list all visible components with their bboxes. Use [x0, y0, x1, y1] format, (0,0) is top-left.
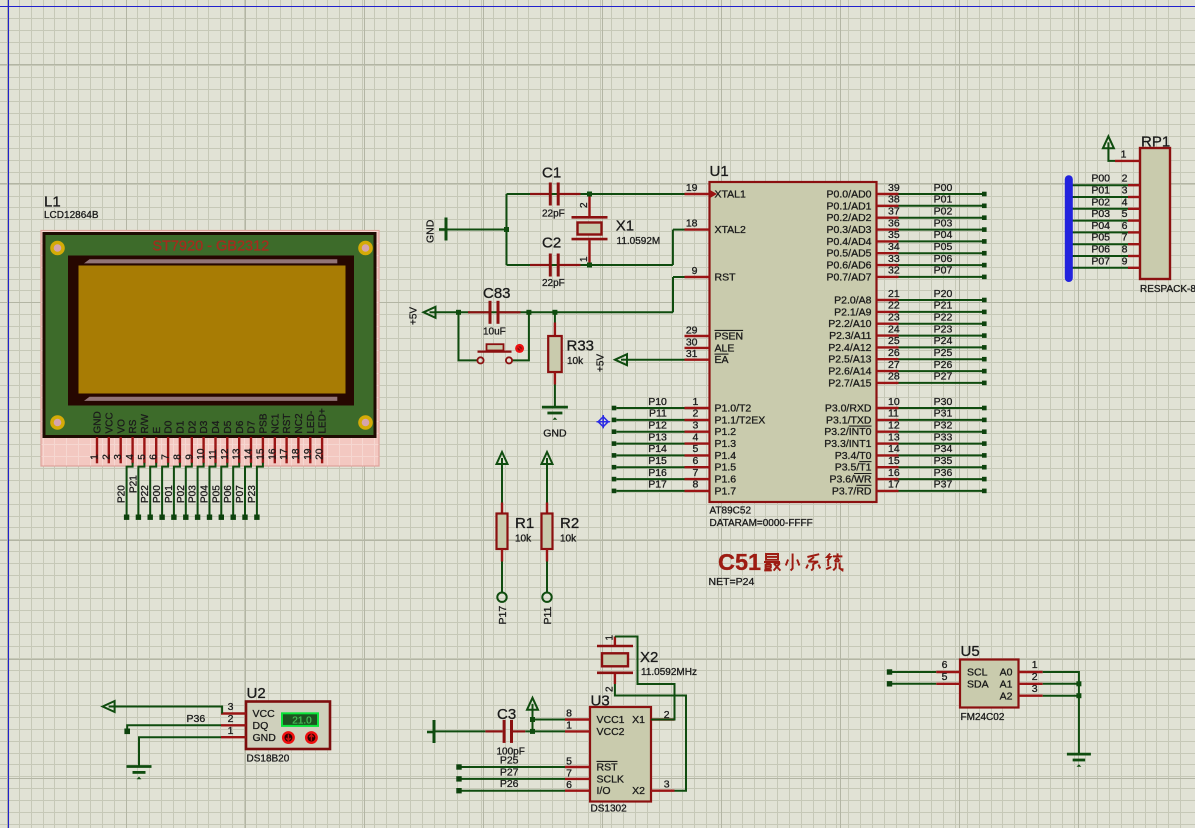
svg-text:10k: 10k [515, 534, 532, 545]
svg-text:VO: VO [116, 419, 127, 434]
U1 pin 6 P1.5 / wire net P15 [612, 465, 617, 470]
svg-text:XTAL1: XTAL1 [715, 189, 746, 201]
svg-text:P34: P34 [934, 443, 953, 455]
svg-text:P10: P10 [648, 396, 667, 408]
terminal P04 [207, 515, 212, 520]
wire LCD pin 5 to net P21 [138, 463, 144, 515]
svg-text:RESPACK-8: RESPACK-8 [1140, 284, 1195, 295]
junction X1 bottom [587, 263, 592, 268]
capacitor C83 10uF [468, 285, 521, 338]
svg-text:RST: RST [715, 272, 737, 284]
svg-text:P1.0/T2: P1.0/T2 [715, 403, 752, 415]
U1 pin 34 P0.5/AD5 / wire net P05 [877, 252, 899, 254]
svg-text:4: 4 [125, 454, 136, 460]
terminal P36 [124, 729, 130, 735]
wire C3 to VCC2 and +5V riser [525, 730, 565, 732]
title glyph (CJK) [826, 553, 842, 570]
svg-text:NET=P24: NET=P24 [709, 576, 755, 588]
svg-text:9: 9 [1122, 255, 1128, 267]
LCD screen [79, 266, 346, 394]
terminal P06 [231, 515, 236, 520]
power arrow U2 VCC [103, 701, 115, 712]
LCD green board [44, 234, 375, 437]
svg-text:GND: GND [253, 732, 277, 744]
svg-text:14: 14 [888, 443, 900, 455]
svg-text:R33: R33 [567, 338, 595, 355]
svg-text:5: 5 [692, 443, 698, 455]
U2 up button [306, 732, 316, 742]
U1 pin 2 P1.1/T2EX / wire net P11 [612, 418, 617, 423]
svg-text:13: 13 [888, 431, 900, 443]
wire button right branch [512, 312, 529, 360]
svg-text:GND: GND [425, 219, 437, 243]
svg-text:P0.4/AD4: P0.4/AD4 [827, 236, 872, 248]
microcontroller U1 AT89C52 [710, 163, 877, 529]
junction A1 [1076, 681, 1081, 686]
U5 pin 5 SDA / wire [887, 681, 892, 686]
svg-text:D1: D1 [176, 420, 187, 433]
U1 pin 25 P2.4/A12 / wire net P24 [877, 346, 899, 348]
svg-text:P00: P00 [152, 485, 163, 503]
U1 pin 8 P1.7 / wire net P17 [612, 489, 617, 494]
svg-text:EA: EA [715, 354, 729, 366]
svg-text:1: 1 [90, 454, 101, 460]
svg-text:P06: P06 [1091, 244, 1110, 256]
svg-text:D0: D0 [164, 420, 175, 433]
svg-text:1: 1 [579, 256, 590, 262]
svg-text:P1.6: P1.6 [715, 474, 737, 486]
svg-text:22: 22 [888, 300, 900, 312]
power arrow RP1 pin1 [1103, 136, 1114, 148]
LCD bezel [68, 256, 354, 406]
svg-text:D7: D7 [247, 420, 258, 433]
svg-text:NC1: NC1 [270, 413, 281, 433]
U1 pin 21 P2.0/A8 / wire net P20 [877, 299, 899, 301]
svg-text:DATARAM=0000-FFFF: DATARAM=0000-FFFF [710, 518, 813, 529]
svg-text:P20: P20 [117, 485, 128, 503]
svg-text:XTAL2: XTAL2 [715, 224, 746, 236]
wire LCD pin 14 to net P07 [245, 463, 251, 515]
svg-text:P2.4/A12: P2.4/A12 [828, 342, 871, 354]
EEPROM U5 FM24C02 [960, 643, 1019, 723]
wire RP1 pin 3 net P01 [1067, 196, 1128, 198]
svg-text:13: 13 [232, 448, 243, 460]
svg-text:3: 3 [113, 454, 124, 460]
svg-text:5: 5 [566, 756, 572, 768]
svg-text:LCD12864B: LCD12864B [44, 210, 99, 221]
svg-text:19: 19 [686, 182, 698, 194]
wire RP1 pin 2 net P00 [1067, 184, 1128, 186]
U3 pin 8 VCC1 [565, 718, 590, 720]
capacitor C1 [530, 165, 581, 220]
svg-text:A2: A2 [1000, 690, 1013, 702]
crystal X1 11.0592M [572, 194, 661, 265]
svg-text:20: 20 [315, 448, 326, 460]
svg-text:P1.2: P1.2 [715, 426, 737, 438]
svg-text:+5V: +5V [596, 354, 607, 372]
svg-text:C2: C2 [542, 235, 561, 252]
svg-text:P17: P17 [497, 606, 509, 625]
svg-text:P03: P03 [1091, 208, 1110, 220]
svg-text:27: 27 [888, 359, 900, 371]
U1 pin 7 P1.6 / wire net P16 [612, 477, 617, 482]
svg-text:A1: A1 [1000, 678, 1013, 690]
svg-text:P02: P02 [1091, 196, 1110, 208]
resistor R1 10k [497, 464, 535, 592]
svg-text:P0.6/AD6: P0.6/AD6 [827, 260, 872, 272]
svg-text:39: 39 [888, 182, 900, 194]
svg-text:P25: P25 [934, 347, 953, 359]
svg-text:30: 30 [686, 336, 698, 348]
svg-text:6: 6 [1122, 220, 1128, 232]
svg-text:35: 35 [888, 229, 900, 241]
svg-text:5: 5 [137, 454, 148, 460]
svg-text:D2: D2 [187, 420, 198, 433]
U1 pin 33 P0.6/AD6 / wire net P06 [877, 264, 899, 266]
svg-text:23: 23 [888, 312, 900, 324]
svg-text:P3.0/RXD: P3.0/RXD [825, 403, 872, 415]
svg-text:3: 3 [1032, 683, 1038, 695]
svg-text:D6: D6 [235, 420, 246, 433]
svg-text:5: 5 [942, 671, 948, 683]
svg-text:37: 37 [888, 206, 900, 218]
temperature sensor U2 DS18B20 [246, 685, 330, 765]
svg-text:9: 9 [184, 454, 195, 460]
ground rail (C3) [433, 720, 436, 743]
svg-text:1: 1 [228, 725, 234, 737]
svg-text:SCL: SCL [967, 667, 988, 679]
svg-text:P2.7/A15: P2.7/A15 [828, 377, 871, 389]
terminal P07 [242, 515, 247, 520]
svg-text:P04: P04 [200, 485, 211, 503]
svg-text:P04: P04 [1091, 220, 1110, 232]
U5 pin 6 SCL / wire [887, 669, 892, 674]
U1 pin 31 EA [685, 359, 710, 361]
junction C83 right [526, 310, 531, 315]
svg-text:10: 10 [196, 448, 207, 460]
svg-text:P00: P00 [934, 182, 953, 194]
LCD mounting hole [50, 241, 65, 256]
title glyph (CJK) [764, 554, 780, 571]
bus bar (blue) [1065, 179, 1073, 278]
svg-text:1: 1 [1032, 659, 1038, 671]
U3 pin 6 / wire net P26 [456, 788, 461, 793]
ground (earth) under R33 [542, 406, 568, 409]
svg-text:7: 7 [692, 467, 698, 479]
junction R33 top [552, 310, 557, 315]
terminal P21 [136, 515, 141, 520]
RTC U3 DS1302 [590, 693, 651, 815]
terminal P22 [148, 515, 153, 520]
svg-text:31: 31 [686, 348, 698, 360]
svg-text:R1: R1 [515, 515, 534, 532]
svg-text:18: 18 [291, 448, 302, 460]
wire LCD pin 6 to net P22 [150, 463, 156, 515]
U2 display 21.0 [282, 713, 318, 726]
U2 down button [283, 732, 293, 742]
U1 pin 18 XTAL2 [685, 228, 710, 230]
svg-text:P31: P31 [934, 408, 953, 420]
svg-text:29: 29 [686, 325, 698, 337]
svg-text:P30: P30 [934, 396, 953, 408]
svg-text:P01: P01 [1091, 185, 1110, 197]
U3 pin 3 X2 [651, 790, 675, 792]
svg-text:19: 19 [303, 448, 314, 460]
U1 pin 16 P3.6/WR / wire net P36 [877, 478, 899, 480]
wire LCD pin 8 to net P01 [174, 463, 180, 515]
wire LCD pin 13 to net P06 [233, 463, 239, 515]
svg-text:P15: P15 [648, 455, 667, 467]
svg-text:P07: P07 [1091, 255, 1110, 267]
svg-text:P1.7: P1.7 [715, 485, 737, 497]
svg-text:P00: P00 [1091, 173, 1110, 185]
LCD mounting hole [358, 241, 373, 256]
U1 pin 13 P3.3/INT1 / wire net P33 [877, 442, 899, 444]
svg-text:P20: P20 [934, 288, 953, 300]
wire RP1 pin 8 net P06 [1067, 255, 1128, 257]
ground (earth) U5 [1067, 753, 1091, 756]
origin marker (blue crosshair) [597, 415, 610, 428]
ground rail GND (crystal net) [445, 218, 448, 241]
svg-text:10uF: 10uF [483, 327, 506, 338]
U2 pin 1 GND [221, 736, 246, 738]
U1 pin 24 P2.3/A11 / wire net P23 [877, 334, 899, 336]
svg-text:P02: P02 [934, 206, 953, 218]
svg-text:P3.3/INT1: P3.3/INT1 [824, 438, 871, 450]
U5 pin 3 A2 / wire [1019, 695, 1043, 697]
U1 pin 1 P1.0/T2 / wire net P10 [612, 406, 617, 411]
svg-text:P3.6/WR: P3.6/WR [829, 474, 871, 486]
svg-text:DS18B20: DS18B20 [247, 754, 290, 765]
svg-text:ST7920 - GB2312: ST7920 - GB2312 [152, 239, 269, 255]
U3 pin 1 VCC2 [565, 730, 590, 732]
wire XTAL2 net bottom (C2 to riser up) [507, 264, 673, 266]
wire RP1 pin 5 net P03 [1067, 220, 1128, 222]
U1 pin 39 P0.0/AD0 / wire net P00 [877, 193, 899, 195]
svg-text:SCLK: SCLK [597, 773, 624, 785]
svg-text:P16: P16 [648, 467, 667, 479]
svg-text:P32: P32 [934, 420, 953, 432]
U5 pin 2 A1 / wire [1019, 683, 1043, 685]
svg-text:LED+: LED+ [318, 408, 329, 433]
svg-text:R/W: R/W [140, 414, 151, 434]
U1 pin 35 P0.4/AD4 / wire net P04 [877, 240, 899, 242]
svg-text:6: 6 [692, 455, 698, 467]
svg-text:L1: L1 [44, 194, 61, 211]
svg-text:D3: D3 [199, 420, 210, 433]
power +5V (EA pin) [615, 354, 627, 365]
svg-text:9: 9 [692, 265, 698, 277]
U1 pin 27 P2.6/A14 / wire net P26 [877, 370, 899, 372]
U5 pin 1 A0 / wire [1019, 671, 1043, 673]
svg-text:P26: P26 [500, 778, 519, 790]
svg-text:P21: P21 [128, 475, 139, 493]
terminal circle P17 [497, 593, 506, 602]
svg-text:LED-: LED- [306, 411, 317, 434]
U1 pin 12 P3.2/INT0 / wire net P32 [877, 431, 899, 433]
svg-text:P1.5: P1.5 [715, 462, 737, 474]
wire RP1 pin 9 net P07 [1067, 267, 1128, 269]
svg-text:22pF: 22pF [542, 209, 565, 220]
svg-text:P0.2/AD2: P0.2/AD2 [827, 212, 872, 224]
power arrow above R2 [542, 452, 553, 464]
svg-text:P05: P05 [211, 485, 222, 503]
svg-text:P23: P23 [247, 485, 258, 503]
svg-text:P3.7/RD: P3.7/RD [832, 485, 872, 497]
wire U2 DQ to terminal P36 [127, 725, 221, 728]
svg-text:C51: C51 [718, 549, 761, 575]
svg-text:16: 16 [888, 467, 900, 479]
svg-text:1: 1 [566, 719, 572, 731]
svg-text:14: 14 [244, 448, 255, 460]
ground (earth) U2 [127, 765, 152, 768]
svg-text:P22: P22 [140, 485, 151, 503]
svg-text:P11: P11 [649, 408, 667, 420]
svg-text:6: 6 [566, 779, 572, 791]
wire button left branch [459, 312, 478, 360]
junction riser/GND [504, 227, 509, 232]
svg-text:3: 3 [1122, 185, 1128, 197]
LCD mounting hole [358, 415, 373, 430]
svg-text:4: 4 [692, 431, 698, 443]
svg-text:7: 7 [161, 454, 172, 460]
wire C3 net left [436, 730, 486, 732]
svg-text:PSB: PSB [259, 413, 270, 433]
svg-text:18: 18 [686, 218, 698, 230]
wire X2 pin1 to U3 X1 [615, 637, 675, 720]
U1 pin 10 P3.0/RXD / wire net P30 [877, 407, 899, 409]
svg-text:I/O: I/O [597, 785, 611, 797]
wire +5V to C83 to RST riser [436, 311, 674, 313]
junction A2 [1076, 693, 1081, 698]
svg-text:RST: RST [597, 762, 619, 774]
svg-text:P21: P21 [934, 300, 953, 312]
svg-text:U3: U3 [591, 693, 610, 710]
svg-text:17: 17 [279, 448, 290, 460]
svg-text:28: 28 [888, 371, 900, 383]
svg-text:P03: P03 [188, 485, 199, 503]
wire RP1 pin 6 net P04 [1067, 231, 1128, 233]
U1 pin 29 PSEN [685, 335, 710, 337]
U1 pin 32 P0.7/AD7 / wire net P07 [877, 276, 899, 278]
svg-text:12: 12 [220, 448, 231, 460]
wire +5V to EA [627, 359, 685, 361]
svg-text:P01: P01 [934, 194, 953, 206]
svg-text:10k: 10k [560, 534, 577, 545]
svg-text:C83: C83 [483, 285, 511, 302]
svg-text:U5: U5 [961, 643, 980, 660]
svg-text:P37: P37 [934, 479, 953, 491]
svg-text:P35: P35 [934, 455, 953, 467]
svg-text:C3: C3 [497, 706, 516, 723]
wire U2 GND to earth [139, 737, 221, 765]
U2 pin 3 VCC [221, 712, 246, 714]
junction C83 left [456, 310, 461, 315]
power arrow above R1 [497, 452, 508, 464]
svg-text:P0.7/AD7: P0.7/AD7 [827, 271, 872, 283]
svg-text:GND: GND [543, 427, 567, 439]
svg-text:3: 3 [664, 779, 670, 791]
svg-text:8: 8 [1122, 244, 1128, 256]
U1 pin 17 P3.7/RD / wire net P37 [877, 490, 899, 492]
svg-text:6: 6 [149, 454, 160, 460]
svg-text:P07: P07 [235, 485, 246, 503]
svg-text:P36: P36 [187, 713, 206, 725]
capacitor C3 100pF [485, 706, 525, 758]
capacitor C2 [530, 235, 581, 290]
resistor pack RP1 RESPACK-8 [1140, 134, 1195, 295]
U1 pin 37 P0.2/AD2 / wire net P02 [877, 216, 899, 218]
svg-text:P27: P27 [500, 766, 519, 778]
U1 pin 5 P1.4 / wire net P14 [612, 453, 617, 458]
wire LCD pin 7 to net P00 [162, 463, 168, 515]
svg-text:3: 3 [692, 420, 698, 432]
svg-text:X2: X2 [632, 785, 645, 797]
terminal P20 [124, 515, 129, 520]
terminal P03 [195, 515, 200, 520]
svg-text:25: 25 [888, 335, 900, 347]
svg-text:P03: P03 [934, 217, 953, 229]
svg-text:P07: P07 [934, 265, 953, 277]
svg-text:P3.5/T1: P3.5/T1 [835, 462, 872, 474]
svg-text:16: 16 [267, 448, 278, 460]
U1 pin 28 P2.7/A15 / wire net P27 [877, 382, 899, 384]
svg-text:FM24C02: FM24C02 [961, 712, 1005, 723]
U1 pin 15 P3.5/T1 / wire net P35 [877, 466, 899, 468]
U1 pin 22 P2.1/A9 / wire net P21 [877, 311, 899, 313]
svg-text:32: 32 [888, 265, 900, 277]
svg-text:P11: P11 [542, 606, 554, 624]
svg-text:11.0592M: 11.0592M [617, 236, 661, 247]
svg-text:2: 2 [1032, 671, 1038, 683]
wire LCD pin 15 to net P23 [257, 463, 263, 515]
svg-text:R2: R2 [560, 515, 579, 532]
svg-text:AT89C52: AT89C52 [710, 506, 752, 517]
terminal P00 [159, 515, 164, 520]
svg-text:2: 2 [101, 454, 112, 460]
svg-text:P13: P13 [648, 431, 667, 443]
svg-text:+5V: +5V [409, 307, 420, 325]
svg-text:15: 15 [888, 455, 900, 467]
U1 pin 38 P0.1/AD1 / wire net P01 [877, 205, 899, 207]
svg-text:DS1302: DS1302 [591, 804, 628, 815]
svg-text:U1: U1 [710, 163, 729, 180]
svg-text:P06: P06 [934, 253, 953, 265]
svg-text:U2: U2 [247, 685, 266, 702]
svg-text:P04: P04 [934, 229, 953, 241]
svg-text:P01: P01 [164, 485, 175, 503]
svg-text:P2.1/A9: P2.1/A9 [834, 306, 872, 318]
U1 pin 11 P3.1/TXD / wire net P31 [877, 419, 899, 421]
wire riser to U1 RST [672, 277, 674, 312]
svg-text:21: 21 [888, 288, 900, 300]
svg-text:P2.5/A13: P2.5/A13 [828, 354, 871, 366]
svg-text:X1: X1 [632, 714, 645, 726]
wire GND rail to riser [448, 229, 507, 231]
U3 pin 5 / wire net P25 [456, 764, 461, 769]
wire LCD pin 11 to net P04 [210, 463, 216, 515]
power +5V (reset net) [424, 307, 436, 318]
U2 pin 2 DQ [221, 724, 246, 726]
LCD screen top highlight [84, 259, 337, 263]
svg-text:P2.0/A8: P2.0/A8 [834, 295, 872, 307]
svg-text:11: 11 [888, 408, 899, 420]
svg-text:P05: P05 [1091, 232, 1110, 244]
U1 pin 3 P1.2 / wire net P12 [612, 429, 617, 434]
svg-text:DQ: DQ [253, 720, 269, 732]
svg-text:P3.4/T0: P3.4/T0 [835, 450, 872, 462]
svg-text:8: 8 [566, 708, 572, 720]
